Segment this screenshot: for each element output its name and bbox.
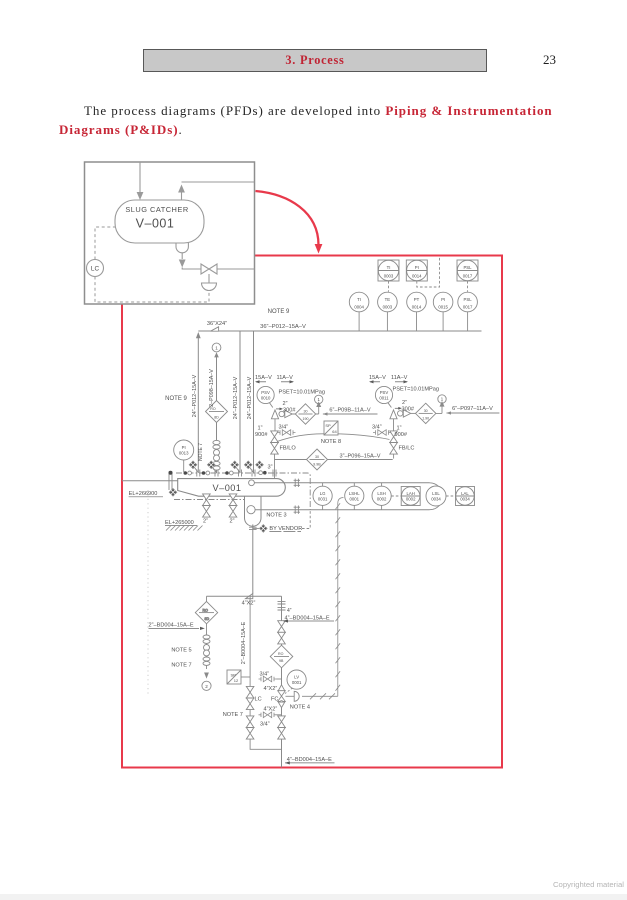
svg-text:NOTE 9: NOTE 9 <box>165 396 187 402</box>
svg-text:30: 30 <box>424 409 428 413</box>
svg-text:3/4”: 3/4” <box>260 722 270 728</box>
drain stem <box>208 274 210 283</box>
svg-text:0001: 0001 <box>350 497 360 502</box>
svg-text:1”: 1” <box>258 426 263 432</box>
svg-text:900#: 900# <box>395 432 408 438</box>
relief valve PSV-0010 <box>257 386 295 435</box>
svg-text:PSV: PSV <box>380 390 389 395</box>
svg-text:EL+266900: EL+266900 <box>129 491 158 497</box>
dash-dot below vessel <box>174 499 244 501</box>
pipe feed line into vessel <box>122 480 178 482</box>
bottom texts <box>149 601 335 765</box>
svg-text:LV: LV <box>294 675 299 680</box>
dash-dot valve header above vessel <box>176 473 310 510</box>
pipe col PSV2 down <box>393 450 395 459</box>
svg-text:PSL: PSL <box>463 265 472 270</box>
dashed signal lines <box>95 227 209 302</box>
valve cluster col3 <box>225 461 241 476</box>
instrument PI-0014 (panel) <box>406 260 427 281</box>
riser pipe 24"-P012-15A-V col1 <box>197 335 199 473</box>
svg-text:0017: 0017 <box>463 274 473 279</box>
bleed valve right <box>373 430 394 436</box>
block valves 4" lower <box>278 716 286 739</box>
svg-text:PSET=10.01MPag: PSET=10.01MPag <box>393 387 440 393</box>
reducer above LV <box>278 685 285 691</box>
svg-text:3/4”: 3/4” <box>372 425 382 431</box>
flange stack 4" <box>278 602 286 610</box>
valve cluster col2 <box>202 461 218 476</box>
connector 1 riser right <box>436 395 446 414</box>
red curved arrow <box>256 191 323 254</box>
arrow up at riser top <box>196 332 201 338</box>
bleed 3/4 upper <box>259 676 282 682</box>
svg-text:FB/LC: FB/LC <box>399 446 415 452</box>
vessel V-001 body <box>178 479 286 497</box>
valve cluster PSV col <box>256 461 276 476</box>
svg-text:RO: RO <box>203 608 209 612</box>
instrument texts <box>354 265 473 310</box>
signal dashed LSL-LAL <box>446 495 456 497</box>
svg-text:1: 1 <box>215 345 218 350</box>
svg-text:1”: 1” <box>397 426 402 432</box>
instrument LSL-0034 <box>426 486 446 506</box>
svg-text:0001: 0001 <box>292 680 302 685</box>
dashed signal PI elbow <box>417 257 440 287</box>
svg-text:1: 1 <box>441 397 444 402</box>
svg-text:LC: LC <box>255 697 262 703</box>
svg-text:FC: FC <box>271 697 278 703</box>
reducer 4x2 at boot drain corner <box>246 594 253 599</box>
off-page connector 2 <box>202 681 211 690</box>
block valves FB/LC <box>390 431 398 454</box>
red P&ID border box <box>122 256 502 768</box>
pipe 2"-BD004 branch <box>206 596 208 669</box>
slug catcher sketch box <box>85 162 255 304</box>
hatch ground EL+265000 <box>166 526 203 531</box>
arrow up <box>178 185 185 193</box>
block valves FB/LO <box>271 431 279 454</box>
svg-text:2: 2 <box>205 684 208 689</box>
svg-text:2”: 2” <box>230 519 235 525</box>
svg-text:0034: 0034 <box>460 497 470 502</box>
svg-text:24”–P012–15A–V: 24”–P012–15A–V <box>192 374 198 417</box>
svg-text:LG: LG <box>320 491 326 496</box>
svg-text:0034: 0034 <box>431 497 441 502</box>
svg-text:30: 30 <box>304 410 308 414</box>
svg-text:SLUG CATCHER: SLUG CATCHER <box>125 205 188 214</box>
drain X valve at vessel inlet <box>169 489 176 496</box>
pipe left col to vessel <box>274 460 276 479</box>
pipe 4"-BD004 column <box>281 596 283 767</box>
svg-text:LAH: LAH <box>407 491 415 496</box>
svg-text:0002: 0002 <box>406 497 416 502</box>
instrument PSL-0017 (field) <box>458 292 478 331</box>
dashed signal PSL <box>467 281 469 292</box>
svg-text:1: 1 <box>318 397 321 402</box>
vessel drain 2" valves left <box>203 494 211 517</box>
svg-text:4”: 4” <box>287 608 292 614</box>
node 15A-V/11A-V left <box>255 375 293 381</box>
svg-text:0003: 0003 <box>384 274 394 279</box>
signal line (hatched) from level to LV <box>302 498 344 700</box>
orifice RO/8D col2 <box>206 401 228 423</box>
instrument PI-0013 <box>174 440 194 472</box>
svg-text:0002: 0002 <box>377 497 387 502</box>
svg-text:3/4”: 3/4” <box>279 425 289 431</box>
vessel boot <box>245 496 262 526</box>
pipe col4 24"-P012-15A-V <box>253 331 255 473</box>
orifice 30/99B <box>307 449 328 470</box>
controller LC <box>87 260 104 277</box>
svg-text:0004: 0004 <box>354 305 364 310</box>
valve cluster col1 <box>184 461 200 476</box>
vessel drain 2" valves right <box>229 494 237 517</box>
pipe col3 24"-P012-15A-V <box>239 331 241 473</box>
svg-text:2–P098–15A–V: 2–P098–15A–V <box>209 369 215 407</box>
svg-text:NOTE 9: NOTE 9 <box>268 309 290 315</box>
svg-text:SP: SP <box>325 423 331 428</box>
svg-text:3”–P096–15A–V: 3”–P096–15A–V <box>339 453 380 459</box>
svg-text:9.9B: 9.9B <box>313 463 321 467</box>
SP/64 tag <box>324 421 338 435</box>
svg-text:8D: 8D <box>205 617 210 621</box>
connector 1 riser left <box>315 395 323 414</box>
off-page connector 1 col2 <box>212 343 221 352</box>
svg-text:11A–V: 11A–V <box>391 375 408 381</box>
instrument LAH-0002 <box>401 487 420 506</box>
instrument LG-0031 <box>313 486 332 505</box>
orifice RO/9B <box>270 645 293 668</box>
svg-text:NOTE 4: NOTE 4 <box>290 704 310 710</box>
nozzle C on vessel <box>249 480 430 486</box>
bleed 3/4 lower <box>259 712 282 718</box>
svg-text:190: 190 <box>303 417 309 421</box>
svg-text:PI: PI <box>182 445 186 450</box>
instrument LSHL-0001 <box>345 486 364 505</box>
svg-text:NOTE 8: NOTE 8 <box>321 439 341 445</box>
svg-text:LSL: LSL <box>432 491 440 496</box>
pipe 3"-P096-15A-V <box>275 459 393 461</box>
svg-text:0014: 0014 <box>412 274 422 279</box>
instrument TE-0003 <box>378 292 398 331</box>
orifice 30/190 left <box>295 404 315 424</box>
instrument LV-0001 <box>285 670 306 694</box>
svg-text:FB/LO: FB/LO <box>280 446 297 452</box>
svg-text:64: 64 <box>332 429 337 434</box>
instrument PI-0015 <box>433 292 453 331</box>
drain funnel <box>202 283 217 291</box>
gauge ties <box>323 483 382 510</box>
bleed valve left <box>275 430 296 436</box>
svg-text:V–001: V–001 <box>136 217 175 231</box>
svg-text:TI: TI <box>387 265 391 270</box>
svg-text:2”–B0004–15A–E: 2”–B0004–15A–E <box>241 621 247 664</box>
note 8 leader curve <box>277 434 390 442</box>
svg-text:PT: PT <box>414 297 420 302</box>
svg-text:11A–V: 11A–V <box>277 375 294 381</box>
svg-text:PSL: PSL <box>464 297 473 302</box>
svg-text:4”–BD004–15A–E: 4”–BD004–15A–E <box>287 757 332 763</box>
valve weep circle <box>280 701 283 704</box>
svg-text:2”: 2” <box>402 400 407 406</box>
control valve LV-0001 <box>278 691 286 702</box>
svg-text:0031: 0031 <box>318 497 328 502</box>
drain header <box>207 595 282 597</box>
pipe LC column <box>250 596 281 749</box>
svg-text:3”: 3” <box>268 465 273 471</box>
svg-text:300#: 300# <box>402 407 415 413</box>
svg-text:36”X24”: 36”X24” <box>207 321 227 327</box>
vessel neck boot <box>176 243 188 253</box>
svg-text:0015: 0015 <box>438 305 448 310</box>
svg-text:TE: TE <box>385 297 391 302</box>
orifice 30/190 right <box>416 403 436 423</box>
svg-text:NOTE 7: NOTE 7 <box>223 712 243 718</box>
node 15A-V/11A-V right <box>369 375 408 381</box>
svg-text:4”X2”: 4”X2” <box>242 601 256 607</box>
svg-text:300#: 300# <box>283 407 296 413</box>
svg-text:LSHL: LSHL <box>349 491 360 496</box>
valve cluster col4 <box>245 461 256 476</box>
svg-text:900#: 900# <box>255 432 268 438</box>
faint construction line <box>147 490 149 695</box>
instrument LSH-0002 <box>372 486 391 505</box>
svg-text:PSET=10.01MPag: PSET=10.01MPag <box>279 390 326 396</box>
relief valve PSV-0011 <box>375 386 415 435</box>
signal dashed LSH-LAH <box>391 495 401 497</box>
svg-text:PI: PI <box>441 297 445 302</box>
X valve by vendor <box>253 525 267 532</box>
instrument PT-0014 <box>407 292 427 331</box>
svg-text:2”–BD004–15A–E: 2”–BD004–15A–E <box>149 623 194 629</box>
pipe 36"-P012-15A-V (main header) <box>196 327 482 473</box>
dashed leader by-vendor <box>302 511 310 529</box>
valve stack 2" branch <box>203 635 210 665</box>
instrument PSL-0017 (panel) <box>457 260 478 281</box>
svg-text:30: 30 <box>315 455 319 459</box>
rotated line labels <box>192 369 253 461</box>
wire inlet to sketch vessel <box>139 162 141 193</box>
boot outlet flanges <box>249 527 257 529</box>
svg-text:2”: 2” <box>283 401 288 407</box>
svg-text:4”X2”: 4”X2” <box>264 686 278 692</box>
svg-text:LSH: LSH <box>377 491 385 496</box>
svg-text:15A–V: 15A–V <box>255 375 272 381</box>
svg-text:LAL: LAL <box>461 491 469 496</box>
svg-text:3/4”: 3/4” <box>260 672 270 678</box>
page bottom shade <box>0 894 627 900</box>
svg-text:V–001: V–001 <box>212 483 241 493</box>
svg-text:0010: 0010 <box>261 396 271 401</box>
arrow to connector 2 <box>204 673 209 679</box>
svg-text:36”–P012–15A–V: 36”–P012–15A–V <box>260 324 306 330</box>
pipe 6"-P097-11A-V <box>446 411 499 414</box>
svg-text:NOTE 7: NOTE 7 <box>171 663 191 669</box>
pipe 6"-P09B-11A-V <box>323 412 378 415</box>
drain from boot <box>252 524 254 593</box>
inlet nozzle flanges <box>169 471 173 490</box>
svg-text:15A–V: 15A–V <box>369 375 386 381</box>
PSV labels <box>261 390 444 467</box>
svg-text:PSV: PSV <box>261 390 270 395</box>
actuator dome <box>286 691 300 701</box>
block valves 4" upper <box>278 621 286 644</box>
svg-text:9B: 9B <box>279 659 284 663</box>
svg-text:PI: PI <box>415 265 419 270</box>
pipe col PSV1 down <box>274 450 276 460</box>
svg-text:24”–P012–15A–V: 24”–P012–15A–V <box>233 376 239 419</box>
svg-text:SP: SP <box>231 672 237 677</box>
wire after valve <box>217 268 255 270</box>
svg-text:0014: 0014 <box>412 305 422 310</box>
wire to drain valve <box>182 268 201 270</box>
wire liquid outlet <box>181 253 183 259</box>
sketch vessel V-001 <box>115 200 204 243</box>
SP/12 tag <box>227 670 250 684</box>
svg-text:2”: 2” <box>203 519 208 525</box>
svg-text:24”–P012–15A–V: 24”–P012–15A–V <box>247 376 253 419</box>
svg-text:RO: RO <box>278 652 284 656</box>
reducer below LV <box>278 702 285 708</box>
svg-text:BY VENDOR: BY VENDOR <box>269 526 302 532</box>
instrument TI-0004 (field) <box>349 292 369 331</box>
svg-text:6”–P097–11A–V: 6”–P097–11A–V <box>452 406 493 412</box>
svg-text:NOTE 5: NOTE 5 <box>171 648 191 654</box>
svg-text:NOTE 7: NOTE 7 <box>198 443 204 461</box>
svg-text:12: 12 <box>234 678 239 683</box>
svg-text:4”–BD004–15A–E: 4”–BD004–15A–E <box>285 615 330 621</box>
svg-text:0003: 0003 <box>383 305 393 310</box>
orifice RO/8D-2 <box>195 601 217 623</box>
valve stack col2 <box>213 440 220 470</box>
svg-text:4”X2”: 4”X2” <box>264 706 278 712</box>
reducer 36x24 <box>211 327 219 331</box>
instrument LAL-0034 <box>456 487 475 506</box>
svg-text:0017: 0017 <box>463 305 473 310</box>
svg-text:1.90: 1.90 <box>422 417 429 421</box>
valve (butterfly) on sketch drain <box>201 264 217 274</box>
instrument TI-0003 (panel) <box>378 260 399 281</box>
svg-text:NOTE 3: NOTE 3 <box>266 513 286 519</box>
svg-text:TI: TI <box>357 297 361 302</box>
svg-text:8D: 8D <box>214 415 219 419</box>
svg-text:0013: 0013 <box>179 451 189 456</box>
arrow into vessel <box>137 192 144 200</box>
level line bottom <box>247 506 430 514</box>
flange pairs on level lines <box>294 479 300 487</box>
arrow down <box>179 260 186 268</box>
svg-text:0011: 0011 <box>379 396 389 401</box>
svg-text:EL+265000: EL+265000 <box>165 520 194 526</box>
svg-text:LC: LC <box>91 266 100 273</box>
LC block valves upper <box>246 686 254 709</box>
dashed signal TI <box>388 281 390 292</box>
pipe col2 2"-P098-15A-V <box>216 356 218 473</box>
svg-text:6”–P09B–11A–V: 6”–P09B–11A–V <box>329 408 371 414</box>
LC block valves lower <box>246 716 254 739</box>
svg-text:RO: RO <box>210 407 216 411</box>
wire vapour outlet <box>182 182 255 200</box>
level envelope cap <box>430 483 443 510</box>
